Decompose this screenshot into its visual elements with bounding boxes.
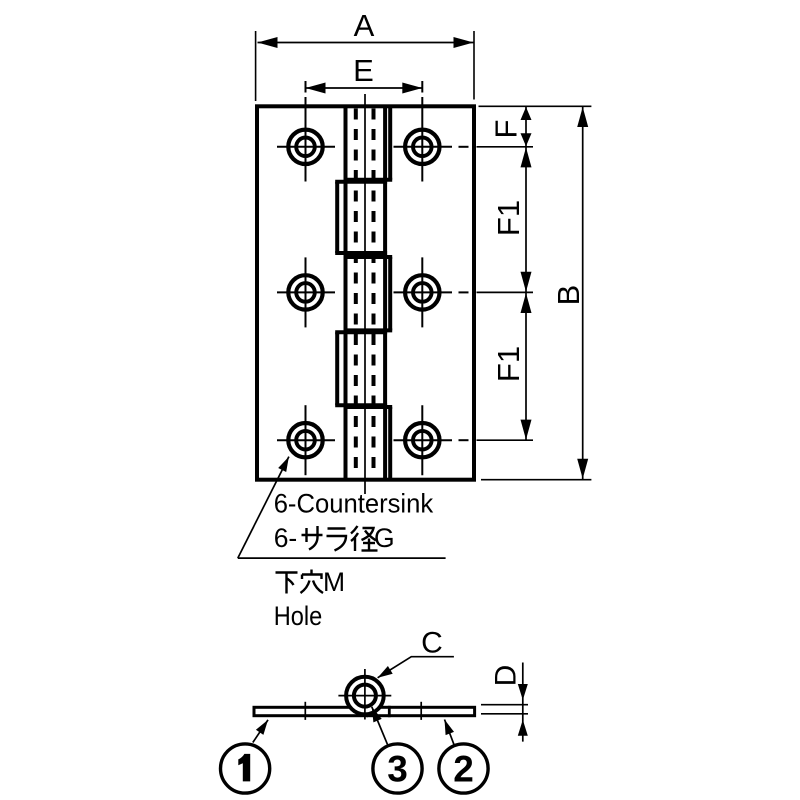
hole middle-right horizontal centerline — [394, 291, 453, 293]
knuckle segment 3 right edge — [388, 257, 392, 330]
countersink hole bottom-right outer circle — [405, 423, 439, 457]
dimension E left arrowhead — [306, 83, 326, 94]
hole top-left vertical centerline upper dash — [305, 81, 307, 93]
countersink hole bottom-left outer circle — [288, 423, 322, 457]
balloon 3 circle — [373, 744, 422, 793]
dimension A line — [258, 42, 474, 44]
dimension D upper arrowhead — [518, 684, 528, 700]
balloon 1 arrowhead — [256, 720, 268, 735]
balloon 3 arrowhead — [372, 707, 382, 723]
dimension F1 upper line — [525, 147, 527, 293]
hole bottom-right centerline dash — [459, 439, 469, 441]
dimension A left extension line — [255, 31, 257, 101]
hole bottom-left horizontal centerline — [277, 439, 335, 441]
knuckle segment 4 left edge — [335, 332, 339, 405]
svg-text:F1: F1 — [491, 200, 526, 236]
barrel right edge line — [383, 106, 387, 479]
knuckle segment 5 top — [344, 405, 393, 409]
pin hidden line left — [354, 109, 358, 478]
side view left hole tick — [304, 702, 306, 720]
dimension F line — [525, 106, 527, 147]
knuckle segment 3 bottom — [344, 328, 393, 332]
katakana sa — [302, 526, 323, 550]
countersink hole middle-right outer circle — [405, 275, 439, 309]
hole top-right centerline extension — [477, 146, 534, 148]
dimension F1 upper bottom arrowhead — [521, 272, 532, 292]
balloon 1 circle — [221, 744, 270, 793]
dimension F1 lower bottom arrowhead — [521, 420, 532, 440]
countersink leader arrowhead — [278, 457, 289, 472]
balloon 2 arrowhead — [445, 720, 455, 736]
pin center line — [364, 94, 366, 494]
knuckle segment 2 bottom — [335, 251, 387, 255]
knuckle curl outer circle — [346, 677, 384, 715]
dimension F bottom arrowhead — [521, 133, 532, 146]
countersink hole middle-left outer circle — [288, 275, 322, 309]
countersink hole bottom-left inner circle — [296, 431, 315, 450]
balloon 2 leader — [445, 720, 455, 746]
svg-text:3: 3 — [387, 749, 408, 790]
pin hidden line right — [372, 109, 376, 478]
svg-text:6-Countersink: 6-Countersink — [274, 489, 434, 519]
katakana ra — [327, 529, 347, 551]
dimension B bottom arrowhead — [577, 459, 588, 479]
countersink hole middle-right inner circle — [413, 283, 432, 302]
svg-text:A: A — [354, 8, 375, 43]
knuckle segment 1 bottom — [344, 178, 393, 182]
hole top-right vertical centerline — [421, 97, 423, 182]
side view horizontal centerline — [338, 695, 391, 697]
top extension line for F and B — [479, 105, 592, 107]
hole middle-right vertical centerline — [421, 257, 423, 327]
dimension D top extension line — [481, 704, 528, 706]
svg-text:6-: 6- — [274, 523, 298, 553]
hinge front view outer outline — [257, 106, 474, 479]
svg-text:D: D — [489, 665, 522, 687]
svg-text:C: C — [421, 626, 443, 659]
countersink hole top-left outer circle — [288, 130, 322, 164]
label C leader arrowhead — [378, 666, 393, 678]
knuckle segment 4 bottom — [335, 403, 387, 407]
balloon 1 number — [238, 754, 250, 782]
knuckle segment 4 top — [335, 330, 387, 334]
label C leader line — [378, 657, 454, 678]
kanji kei — [351, 526, 378, 551]
dimension F1 lower line — [525, 292, 527, 440]
hole top-right horizontal centerline — [394, 146, 453, 148]
bottom extension line for B — [481, 479, 591, 481]
curl end tick — [388, 706, 391, 717]
dimension F1 lower top arrowhead — [521, 293, 532, 313]
hole top-right vertical centerline upper dash — [421, 81, 423, 93]
side view left leaf — [254, 707, 367, 715]
dimension E line — [306, 87, 423, 89]
dimension B line — [582, 106, 584, 479]
dimension A right extension line — [473, 31, 475, 100]
side view right leaf — [368, 707, 475, 715]
side view right hole tick — [420, 702, 422, 720]
svg-text:F: F — [489, 120, 524, 139]
svg-text:F1: F1 — [491, 346, 526, 382]
hole middle-left vertical centerline — [305, 257, 307, 327]
dimension F top arrowhead — [521, 107, 532, 120]
hole top-right centerline dash — [459, 146, 469, 148]
dimension D bottom extension line — [481, 713, 528, 715]
hole middle-right centerline extension — [477, 291, 534, 293]
dimension D lower arrowhead — [518, 720, 528, 736]
hole top-left vertical centerline — [305, 97, 307, 182]
kanji shita (down) — [276, 573, 298, 594]
svg-text:Hole: Hole — [274, 601, 323, 631]
knuckle segment 3 top — [344, 255, 393, 259]
dimension F1 upper top arrowhead — [521, 147, 532, 167]
hole middle-left horizontal centerline — [277, 291, 335, 293]
hole bottom-left vertical centerline — [305, 405, 307, 475]
barrel left edge line — [344, 106, 348, 479]
side view vertical centerline — [364, 669, 366, 720]
countersink hole top-right outer circle — [405, 130, 439, 164]
knuckle segment 2 top — [335, 180, 387, 184]
dimension A left arrowhead — [258, 37, 278, 48]
countersink hole top-right inner circle — [413, 138, 432, 157]
balloon 3 leader — [372, 707, 388, 746]
svg-text:2: 2 — [453, 749, 474, 790]
balloon 2 circle — [439, 744, 488, 793]
balloon 1 leader — [253, 720, 268, 743]
kanji ana (hole) — [301, 570, 324, 594]
svg-text:M: M — [323, 567, 345, 597]
countersink leader line — [238, 457, 289, 558]
hinge pin circle — [354, 685, 376, 707]
knuckle segment 2 left edge — [335, 182, 339, 253]
countersink leader underline — [238, 557, 446, 559]
knuckle segment 1 right edge — [388, 106, 392, 180]
dimension E right arrowhead — [402, 83, 422, 94]
hole bottom-right centerline extension — [477, 439, 534, 441]
dimension D line — [522, 663, 524, 742]
countersink hole bottom-right inner circle — [413, 431, 432, 450]
hole middle-right centerline dash — [459, 291, 469, 293]
dimension B top arrowhead — [577, 107, 588, 127]
svg-text:G: G — [374, 523, 395, 553]
countersink hole top-left inner circle — [296, 138, 315, 157]
hole bottom-right vertical centerline — [421, 405, 423, 475]
dimension A right arrowhead — [454, 37, 474, 48]
countersink hole middle-left inner circle — [296, 283, 315, 302]
hole bottom-right horizontal centerline — [394, 439, 453, 441]
svg-text:B: B — [551, 285, 586, 306]
hole top-left horizontal centerline — [277, 146, 335, 148]
svg-text:E: E — [353, 53, 374, 88]
knuckle segment 5 right edge — [388, 407, 392, 480]
